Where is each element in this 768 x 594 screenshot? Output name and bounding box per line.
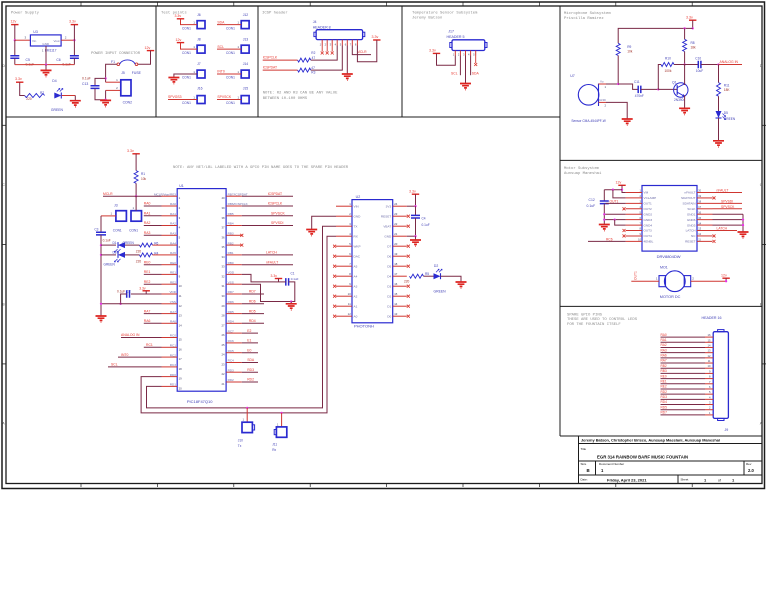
svg-text:GND5: GND5 (687, 223, 696, 227)
svg-text:RD0: RD0 (170, 373, 176, 377)
svg-text:0.1uF: 0.1uF (291, 277, 299, 281)
wire 12v to VM (622, 185, 626, 192)
resistor R2 47 (298, 58, 311, 62)
sheet inner border (6, 6, 762, 484)
junction (104, 99, 106, 101)
ground (168, 78, 179, 84)
svg-text:U1: U1 (179, 184, 184, 188)
svg-text:LATCH: LATCH (686, 229, 696, 233)
svg-text:3.3v: 3.3v (139, 287, 146, 291)
svg-text:220: 220 (404, 280, 410, 284)
resistor R5 220 (410, 274, 424, 278)
svg-text:D6: D6 (387, 254, 391, 258)
svg-text:SPARE GPIO PINS: SPARE GPIO PINS (567, 314, 603, 318)
svg-text:RD5: RD5 (228, 310, 234, 314)
svg-text:29: 29 (221, 304, 225, 308)
svg-text:SCL: SCL (111, 363, 118, 367)
svg-text:3.3v: 3.3v (15, 77, 22, 81)
svg-text:VSS: VSS (170, 300, 176, 304)
svg-text:D4: D4 (387, 274, 391, 278)
svg-text:E2: E2 (247, 329, 251, 333)
svg-text:NC: NC (691, 234, 696, 238)
svg-text:470nF: 470nF (635, 94, 644, 98)
U1 pin 40 RB7/ICSPDAT (226, 195, 242, 197)
svg-text:SPVSCK: SPVSCK (271, 212, 285, 216)
wire C12 down (603, 204, 605, 224)
svg-text:RA7: RA7 (170, 310, 176, 314)
svg-text:220: 220 (136, 250, 142, 254)
ground (622, 119, 633, 125)
divider under top blocks (6, 116, 560, 118)
junction rail VSS (100, 303, 102, 305)
DRV pin 8 OUT3 (626, 230, 642, 232)
no-connect U2 D pins (407, 245, 410, 248)
svg-text:33: 33 (221, 265, 225, 269)
svg-text:Size: Size (581, 462, 587, 466)
svg-text:C13: C13 (82, 82, 88, 86)
wire VSS right (242, 284, 291, 301)
svg-text:GREEN: GREEN (434, 289, 447, 293)
resistor R9 10k (616, 43, 620, 55)
wire node to C5 (14, 40, 16, 55)
junction (45, 63, 47, 65)
svg-text:23: 23 (221, 363, 225, 367)
svg-text:16: 16 (394, 282, 398, 286)
J4 pin 7 stub (351, 40, 353, 46)
wire (181, 19, 198, 25)
svg-text:RA1: RA1 (170, 212, 176, 216)
svg-text:LATCH: LATCH (717, 227, 728, 231)
svg-text:C11: C11 (634, 80, 640, 84)
divider mic/motor (560, 159, 762, 161)
svg-text:47: 47 (312, 56, 316, 60)
svg-text:MCLR: MCLR (103, 192, 113, 196)
svg-text:Date:: Date: (581, 477, 588, 481)
svg-text:J7: J7 (197, 62, 201, 66)
svg-text:Priscilla Ramirez: Priscilla Ramirez (564, 16, 604, 21)
junction (414, 235, 416, 237)
svg-text:SDA: SDA (247, 358, 255, 362)
U2 pin 10 A2 (336, 295, 352, 297)
svg-text:Vout: Vout (53, 39, 59, 43)
svg-text:Power Supply: Power Supply (11, 10, 40, 15)
wire C2 to VSS (121, 294, 127, 304)
wire VDD right (242, 274, 276, 282)
svg-text:J9: J9 (725, 428, 729, 432)
wire C11 to base node (641, 88, 659, 90)
wire U2 GND pin2 (312, 216, 336, 229)
resistor R4 220 (125, 254, 140, 256)
svg-text:EGR 314 RAINBOW BARF MUSIC FOU: EGR 314 RAINBOW BARF MUSIC FOUNTAIN (597, 454, 688, 459)
svg-text:POWER INPUT CONNECTOR: POWER INPUT CONNECTOR (91, 52, 141, 56)
svg-text:nFAULT: nFAULT (266, 260, 278, 264)
wire CON2 pin2 (106, 89, 121, 91)
svg-text:RD7: RD7 (661, 411, 668, 415)
block divider: test/icsp (257, 6, 259, 117)
svg-text:26: 26 (221, 333, 225, 337)
svg-text:RA1: RA1 (144, 212, 151, 216)
no-connect NC (713, 234, 716, 237)
wire branch to C13 (95, 78, 106, 85)
ground (41, 70, 52, 76)
connector J10 Tx (246, 408, 248, 422)
svg-text:RE1: RE1 (170, 271, 176, 275)
svg-text:10: 10 (179, 284, 183, 288)
svg-text:24: 24 (221, 353, 225, 357)
svg-text:ANALOG IN: ANALOG IN (121, 333, 140, 337)
wire J3 pin1 to rail (101, 215, 116, 217)
wire 3.3v to R7 (20, 82, 25, 95)
svg-text:THESE ARE USED TO CONTROL LEDS: THESE ARE USED TO CONTROL LEDS (567, 318, 638, 322)
svg-text:OUT1: OUT1 (610, 199, 619, 203)
wire to R11 (718, 65, 720, 83)
svg-text:D: D (760, 64, 763, 68)
DRV pin 12 NC (697, 235, 713, 237)
svg-text:nFAULT: nFAULT (684, 191, 695, 195)
svg-text:NOTE: ANY NET/LBL LABELED WITH: NOTE: ANY NET/LBL LABELED WITH A GPIO PI… (173, 165, 349, 170)
U1 pin 9 RE1 (162, 273, 178, 275)
no-connect pin5 (475, 56, 477, 64)
wire to ground (45, 65, 47, 71)
U1 pin 23 RC4 (226, 362, 242, 364)
wire C6 branch (73, 40, 75, 55)
svg-text:34: 34 (221, 255, 225, 259)
svg-text:220: 220 (136, 259, 142, 263)
J4 pin 6 stub (346, 40, 348, 46)
svg-text:Microphone Subsystem: Microphone Subsystem (564, 11, 611, 16)
U2 pin 9 A3 (336, 285, 352, 287)
wire 3.3v rail (692, 20, 694, 28)
svg-text:24: 24 (394, 202, 398, 206)
J4 pin 2 stub (326, 40, 328, 46)
gnd rail wire (15, 64, 75, 66)
svg-text:23: 23 (394, 212, 398, 216)
U2 pin 17 D4 (393, 275, 407, 277)
svg-text:VDD: VDD (169, 290, 176, 294)
svg-text:SDATOUT: SDATOUT (681, 196, 696, 200)
svg-text:37: 37 (221, 226, 225, 230)
svg-text:C3: C3 (94, 227, 98, 231)
U2 pin 2 GND (336, 215, 352, 217)
resistor R8 18k (684, 28, 686, 39)
svg-text:12v: 12v (145, 46, 151, 50)
U1 pin 2 RA0 (162, 205, 178, 207)
U2 pin 6 DAC (336, 255, 352, 257)
svg-text:GND6: GND6 (687, 218, 696, 222)
wire C10 to analog node (701, 64, 719, 66)
U1 pin 31 VSS (226, 283, 242, 285)
svg-text:Vo: Vo (600, 80, 604, 84)
ground (738, 232, 749, 238)
U2 pin 7 A5 (336, 265, 352, 267)
svg-text:INT0: INT0 (121, 353, 128, 357)
svg-text:3.3v: 3.3v (69, 20, 76, 24)
svg-text:RA0: RA0 (661, 333, 667, 337)
right column divider (559, 6, 561, 436)
svg-text:VM: VM (644, 191, 649, 195)
svg-text:J14: J14 (243, 62, 249, 66)
svg-text:38: 38 (221, 216, 225, 220)
DRV pin 18 SDATAIN (697, 202, 713, 204)
svg-text:ICSPDAT: ICSPDAT (268, 192, 282, 196)
svg-text:16: 16 (179, 347, 183, 351)
svg-text:LATCH: LATCH (266, 251, 277, 255)
svg-text:VBAT: VBAT (383, 224, 391, 228)
svg-text:OUT3: OUT3 (644, 229, 653, 233)
svg-text:0.1uF: 0.1uF (422, 223, 430, 227)
rail below C3 (100, 235, 102, 316)
wire pin3 gnd (465, 56, 467, 84)
svg-text:36: 36 (221, 235, 225, 239)
wire RD0 to RX route (141, 236, 336, 413)
U1 pin 21 RD2 (226, 381, 242, 383)
svg-text:17: 17 (179, 357, 183, 361)
svg-text:10uF: 10uF (696, 69, 703, 73)
U1 pin 39 RB6/ICSPCLK (226, 205, 242, 207)
DRV pin 13 LATCH (697, 230, 713, 232)
DRV pin 17 SCLK (697, 208, 713, 210)
svg-text:D3: D3 (113, 251, 117, 255)
wire motor pin1 OUT1 (631, 280, 659, 282)
svg-text:MCLR/Vpp/RE3: MCLR/Vpp/RE3 (154, 192, 176, 196)
svg-text:J5: J5 (121, 71, 125, 75)
svg-text:DRV8804DW: DRV8804DW (657, 254, 681, 259)
svg-text:RC3: RC3 (170, 363, 176, 367)
svg-text:RC1: RC1 (146, 343, 153, 347)
wire motor pin2 to 12v (691, 280, 726, 282)
svg-text:RD2: RD2 (661, 390, 668, 394)
wire R2 to pin4 (311, 46, 337, 61)
svg-text:RA6: RA6 (144, 319, 151, 323)
wire VCLAMP net (604, 189, 622, 191)
svg-text:D1: D1 (113, 241, 117, 245)
svg-text:MOTOR DC: MOTOR DC (660, 295, 681, 299)
J4 pin 1 stub (321, 40, 323, 46)
net ANALOG IN (719, 64, 743, 66)
svg-text:C: C (2, 183, 5, 187)
svg-text:RD4: RD4 (228, 320, 234, 324)
U1 pin 38 RB5 (226, 215, 242, 217)
J4 pin 8 stub (356, 40, 358, 46)
net MCLR wire (352, 46, 371, 55)
svg-text:4ENBL: 4ENBL (644, 240, 654, 244)
svg-text:SPVSDI: SPVSDI (271, 221, 283, 225)
svg-text:Motor Subsystem: Motor Subsystem (564, 166, 600, 171)
svg-text:C12: C12 (589, 198, 595, 202)
svg-text:16: 16 (708, 333, 711, 337)
svg-text:18: 18 (179, 367, 183, 371)
capacitor C5 0.1uF (10, 56, 19, 59)
U1 pin 20 RD1 (162, 385, 178, 387)
svg-text:R7: R7 (40, 91, 44, 95)
svg-text:Aunsuap Maneshai: Aunsuap Maneshai (564, 171, 602, 176)
svg-text:SCL: SCL (217, 45, 224, 49)
svg-text:B: B (587, 468, 590, 473)
ground (460, 84, 471, 90)
svg-text:Tx: Tx (238, 444, 242, 448)
ground (342, 74, 353, 80)
node junction (73, 39, 75, 41)
svg-text:J11: J11 (272, 443, 277, 447)
J17 pin 3 stub (465, 51, 467, 56)
svg-text:RA6: RA6 (661, 354, 667, 358)
svg-text:30: 30 (221, 294, 225, 298)
junction gnd node (290, 300, 292, 302)
svg-text:FUSE: FUSE (132, 71, 142, 75)
svg-text:A2: A2 (354, 294, 358, 298)
svg-text:J16: J16 (197, 86, 203, 90)
svg-text:RD2: RD2 (228, 378, 234, 382)
U7 GND pin (599, 101, 607, 103)
svg-text:D1: D1 (387, 304, 391, 308)
svg-text:D5: D5 (387, 264, 391, 268)
svg-text:GND1: GND1 (687, 212, 696, 216)
wire D5 to gnd (718, 118, 720, 140)
svg-text:RD6: RD6 (228, 300, 234, 304)
divider motor/spare (560, 305, 762, 307)
svg-text:CON1: CON1 (226, 26, 235, 30)
svg-text:RA4: RA4 (170, 241, 176, 245)
svg-text:D2: D2 (434, 264, 438, 268)
net SPVSCK wire (713, 208, 743, 210)
svg-text:SCL: SCL (451, 72, 458, 76)
svg-text:ICSPCLK: ICSPCLK (263, 56, 278, 60)
DRV pin 9 OUT4 (626, 235, 642, 237)
svg-text:GND: GND (354, 214, 362, 218)
svg-text:R5: R5 (425, 272, 429, 276)
svg-text:OUT4: OUT4 (644, 234, 653, 238)
svg-text:ICSP header: ICSP header (262, 10, 288, 15)
svg-text:RE0: RE0 (144, 260, 151, 264)
wire R10 to collector node (674, 64, 685, 66)
svg-text:Title: Title (581, 447, 587, 451)
wire C6 down (73, 58, 75, 64)
svg-text:RB2: RB2 (661, 364, 667, 368)
ground (290, 302, 292, 304)
ground rail gnd (96, 316, 107, 322)
no-connect RESET (713, 240, 716, 243)
U1 pin 17 RC2 (162, 356, 178, 358)
svg-text:15: 15 (394, 292, 398, 296)
svg-text:E0: E0 (247, 348, 251, 352)
U2 pin 8 A4 (336, 275, 352, 277)
svg-text:13: 13 (708, 349, 711, 353)
junction analog (717, 63, 719, 65)
svg-text:RE2: RE2 (170, 280, 176, 284)
svg-text:RD7: RD7 (249, 290, 256, 294)
U1 pin 30 RD7 (226, 293, 242, 295)
svg-text:3.3v: 3.3v (271, 274, 278, 278)
svg-text:CON1: CON1 (182, 26, 191, 30)
svg-text:47: 47 (311, 66, 315, 70)
svg-text:SDATAIN: SDATAIN (683, 202, 696, 206)
wire LED to ground (62, 95, 76, 97)
svg-text:15: 15 (179, 338, 183, 342)
connector CON2 (121, 80, 131, 96)
svg-text:15: 15 (708, 338, 711, 342)
U1 pin 36 RB3 (226, 234, 242, 236)
svg-text:DAC: DAC (354, 254, 361, 258)
svg-text:CON1: CON1 (182, 101, 191, 105)
svg-text:RA7: RA7 (661, 359, 667, 363)
svg-text:RA6: RA6 (170, 320, 176, 324)
svg-text:12v: 12v (616, 180, 622, 184)
svg-text:J12: J12 (243, 13, 249, 17)
svg-text:RA3: RA3 (661, 348, 667, 352)
svg-text:MO1: MO1 (660, 265, 668, 269)
svg-text:RE2: RE2 (661, 385, 667, 389)
svg-text:12v: 12v (721, 273, 727, 277)
wire to C12 (603, 190, 605, 201)
J4 pin 4 stub (336, 40, 338, 46)
wire C4 to gnd node (415, 218, 417, 236)
wire base node to Q1 (658, 88, 677, 90)
svg-text:FOR THE FOUNTAIN ITSELF: FOR THE FOUNTAIN ITSELF (567, 323, 621, 327)
svg-text:A3: A3 (354, 284, 358, 288)
junction (104, 77, 106, 79)
svg-text:Rev: Rev (746, 462, 752, 466)
svg-text:31: 31 (221, 284, 225, 288)
wire R1 to MCLR (135, 183, 137, 196)
U2 pin 22 VBAT (393, 225, 407, 227)
svg-text:39: 39 (221, 206, 225, 210)
no-connect RESET (407, 215, 410, 218)
svg-text:Q1: Q1 (672, 80, 677, 84)
resistor R11 18K (717, 83, 721, 97)
wire C1 to gnd node (289, 282, 295, 302)
net OUT1 wire (606, 202, 626, 204)
wire Vo to C11 (606, 83, 618, 85)
wire pin2 down (105, 90, 107, 99)
svg-text:RD7: RD7 (228, 290, 234, 294)
svg-text:VDD: VDD (228, 271, 235, 275)
svg-text:0.1uF: 0.1uF (82, 77, 91, 81)
svg-text:D: D (2, 64, 5, 68)
svg-text:12v: 12v (176, 38, 182, 42)
svg-text:C10: C10 (695, 56, 701, 60)
svg-text:20: 20 (179, 386, 183, 390)
wire GND pin21 (407, 235, 416, 237)
ground (415, 236, 417, 239)
svg-text:32: 32 (221, 274, 225, 278)
wire D2 to gnd (441, 276, 462, 281)
wire GND1 chain (713, 213, 744, 215)
svg-text:RE2: RE2 (144, 280, 151, 284)
left gnd rail (100, 216, 102, 232)
DRV pin 16 GND1 (697, 213, 713, 215)
U1 pin 11 VDD (162, 293, 178, 295)
junction MCLR (135, 195, 137, 197)
svg-text:20: 20 (394, 242, 398, 246)
svg-text:R2: R2 (311, 51, 315, 55)
J17 pin 4 stub (470, 51, 472, 56)
svg-text:13: 13 (179, 314, 183, 318)
svg-text:Friday, April 23, 2021: Friday, April 23, 2021 (607, 478, 647, 483)
svg-text:R3: R3 (311, 71, 315, 75)
U2 pin 20 D7 (393, 245, 407, 247)
U2 pin 24 3V3 (393, 205, 407, 207)
svg-text:ICSPCLK: ICSPCLK (268, 202, 283, 206)
svg-text:SDA: SDA (217, 20, 225, 24)
net SCL wire (459, 56, 461, 76)
svg-text:RB4: RB4 (228, 222, 234, 226)
svg-text:25: 25 (221, 343, 225, 347)
svg-text:CON1: CON1 (182, 51, 191, 55)
U2 pin 21 GND (393, 235, 407, 237)
regulator U3 LM1117 (30, 35, 61, 46)
svg-text:0.1uF: 0.1uF (587, 204, 596, 208)
wire R9 to Vo node (617, 56, 619, 85)
